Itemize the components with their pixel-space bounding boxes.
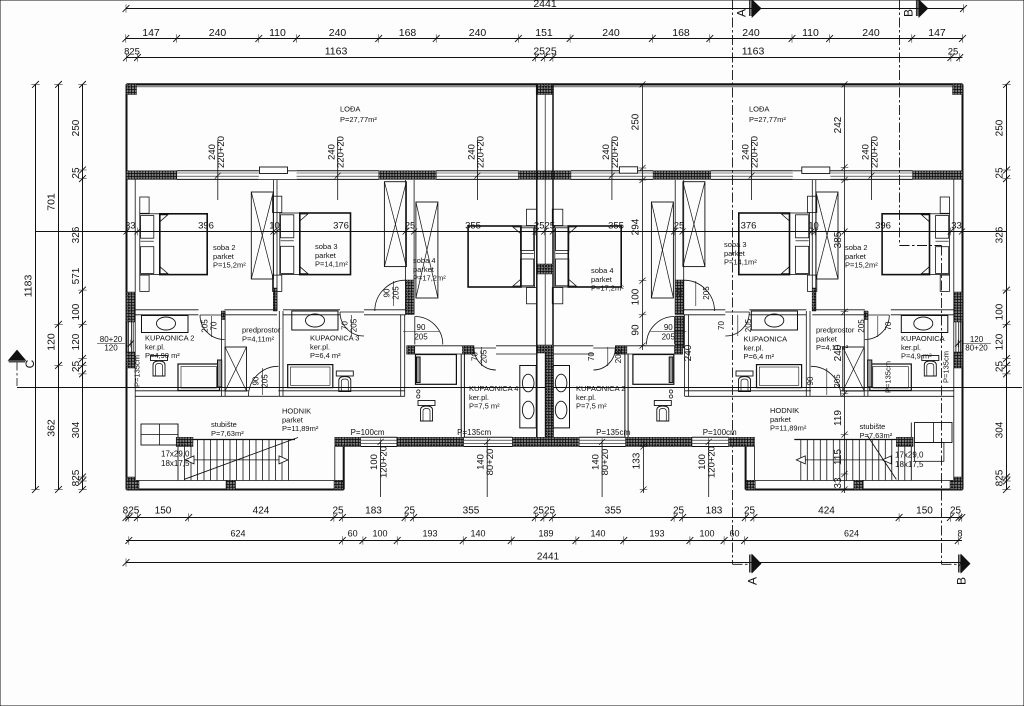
svg-text:ker.pl.: ker.pl. — [901, 343, 921, 352]
svg-text:25: 25 — [950, 506, 962, 517]
pier block right lobby — [675, 316, 684, 348]
svg-text:soba 2: soba 2 — [845, 243, 868, 252]
kupaonica2 vanity right — [553, 366, 569, 428]
svg-text:70: 70 — [884, 321, 893, 330]
svg-text:parket: parket — [282, 415, 304, 424]
svg-text:100: 100 — [71, 303, 82, 320]
right wall piers and window — [954, 292, 963, 322]
bottom wall right wing — [746, 489, 963, 491]
svg-text:133: 133 — [632, 452, 643, 469]
svg-text:B: B — [955, 577, 969, 585]
door soba3 left — [375, 280, 406, 311]
svg-text:220+20: 220+20 — [870, 136, 881, 168]
svg-text:C: C — [23, 359, 37, 368]
bed soba3 left — [300, 213, 351, 275]
svg-text:120: 120 — [104, 344, 118, 353]
left dimension column 250/25/326/571/100/120/25/304/825 — [78, 81, 86, 493]
svg-text:HODNIK: HODNIK — [282, 407, 311, 416]
svg-text:168: 168 — [399, 27, 417, 39]
svg-text:P=100cm: P=100cm — [703, 428, 737, 437]
svg-text:KUPAONICA 2: KUPAONICA 2 — [145, 334, 194, 343]
kupaonica2 wc left — [151, 356, 168, 377]
kup3 top wall right — [684, 310, 807, 315]
svg-text:25: 25 — [994, 361, 1005, 373]
section line C with marker — [9, 350, 26, 360]
svg-text:1163: 1163 — [742, 45, 765, 57]
svg-text:396: 396 — [198, 220, 214, 231]
wall soba2|soba3 right — [806, 180, 816, 396]
svg-text:240: 240 — [329, 27, 347, 39]
svg-text:100: 100 — [699, 529, 714, 539]
svg-text:25: 25 — [673, 506, 685, 517]
door kupaonica3 right — [725, 312, 749, 336]
svg-text:304: 304 — [994, 421, 1005, 438]
svg-text:205: 205 — [261, 374, 270, 388]
hodnik top wall left — [135, 391, 405, 397]
kupaonica3 tub right — [757, 365, 802, 388]
wall soba3|soba4 right — [675, 180, 684, 315]
room dimension line y231 — [35, 228, 1006, 236]
kupaonica vanity right far — [901, 316, 948, 333]
bed soba4 left — [468, 226, 521, 287]
wall kup|predprostor right — [864, 311, 868, 396]
stairs left — [178, 438, 298, 481]
wardrobe soba3 right — [683, 182, 705, 267]
svg-text:825: 825 — [123, 506, 140, 517]
bottom window band — [335, 437, 361, 446]
svg-text:205: 205 — [857, 319, 866, 333]
svg-text:326: 326 — [994, 226, 1005, 243]
svg-text:140: 140 — [590, 529, 605, 539]
kupaonica wc right far — [922, 356, 939, 377]
svg-text:70: 70 — [471, 352, 480, 361]
svg-text:25: 25 — [404, 506, 416, 517]
svg-text:ker.pl.: ker.pl. — [744, 343, 764, 352]
door hodnik left — [248, 366, 278, 396]
svg-text:70: 70 — [210, 321, 219, 330]
svg-text:90: 90 — [630, 324, 641, 336]
kupaonica3 vanity right — [751, 311, 797, 330]
svg-text:385: 385 — [833, 231, 844, 248]
svg-text:2441: 2441 — [537, 552, 560, 563]
loggia wall band — [127, 171, 177, 180]
svg-text:150: 150 — [916, 506, 933, 517]
outer wall right — [962, 84, 964, 489]
svg-text:396: 396 — [875, 220, 891, 231]
svg-text:624: 624 — [230, 529, 245, 539]
svg-text:soba 3: soba 3 — [724, 240, 747, 249]
wall kup2|predprostor left — [221, 311, 225, 396]
kupaonica3 tub left — [288, 365, 333, 388]
door hinge dots left — [417, 390, 420, 393]
svg-text:2441: 2441 — [533, 0, 557, 10]
svg-text:825: 825 — [71, 469, 82, 486]
svg-text:240: 240 — [209, 27, 227, 39]
door kupaonica4 left — [474, 348, 496, 370]
door lobby left — [415, 317, 443, 345]
svg-text:17x29,0: 17x29,0 — [895, 451, 924, 460]
svg-text:120: 120 — [46, 333, 58, 351]
svg-text:90: 90 — [252, 376, 261, 385]
svg-text:120: 120 — [994, 333, 1005, 350]
kupaonica4 vanity left — [520, 366, 536, 428]
door kupaonica3 left — [340, 312, 364, 336]
svg-text:183: 183 — [365, 506, 382, 517]
svg-text:825: 825 — [124, 47, 140, 58]
svg-text:parket: parket — [816, 334, 838, 343]
section A top marker — [750, 0, 751, 16]
svg-text:376: 376 — [333, 220, 349, 231]
svg-text:P=27,77m²: P=27,77m² — [749, 115, 786, 124]
svg-text:304: 304 — [71, 421, 82, 438]
party wall — [537, 84, 553, 437]
wardrobe soba3 left — [384, 182, 406, 267]
svg-text:424: 424 — [818, 506, 835, 517]
left dimension column 701/120/362 — [54, 81, 62, 493]
svg-text:205: 205 — [833, 374, 842, 388]
bed soba4 right — [568, 226, 621, 287]
svg-text:624: 624 — [844, 529, 859, 539]
svg-text:P=14,1m²: P=14,1m² — [315, 260, 348, 269]
svg-text:140: 140 — [470, 529, 485, 539]
svg-text:2525: 2525 — [533, 45, 557, 57]
wardrobe predprostor right — [843, 347, 864, 391]
bed soba2 right — [882, 214, 929, 275]
svg-text:B: B — [901, 9, 915, 17]
svg-text:ker.pl.: ker.pl. — [469, 393, 489, 402]
svg-text:25: 25 — [744, 506, 756, 517]
svg-text:parket: parket — [591, 275, 613, 284]
kup4 north wall left — [407, 346, 537, 354]
svg-text:90: 90 — [383, 288, 392, 297]
loggia window labels — [215, 140, 221, 200]
svg-text:355: 355 — [463, 506, 480, 517]
top dimension row 2 — [123, 53, 963, 61]
svg-text:220+20: 220+20 — [750, 136, 761, 168]
loggia sliding door panels — [260, 167, 288, 174]
bed soba2 left — [160, 214, 207, 275]
wall soba3|soba4 left — [406, 180, 415, 315]
svg-text:205: 205 — [480, 349, 489, 363]
stairs right — [794, 436, 911, 481]
svg-text:362: 362 — [46, 419, 58, 437]
svg-text:100: 100 — [994, 303, 1005, 320]
svg-text:P=135cm: P=135cm — [596, 428, 630, 437]
kup3 top wall left — [283, 310, 406, 315]
svg-text:70: 70 — [341, 321, 350, 330]
svg-text:90: 90 — [806, 376, 815, 385]
svg-text:120+20: 120+20 — [707, 446, 718, 478]
svg-text:P=17,2m²: P=17,2m² — [591, 284, 624, 293]
svg-text:33: 33 — [833, 477, 844, 489]
svg-text:90: 90 — [417, 323, 426, 332]
svg-text:18x17,5: 18x17,5 — [895, 460, 924, 469]
svg-text:90: 90 — [675, 288, 684, 297]
svg-text:HODNIK: HODNIK — [770, 406, 799, 415]
svg-text:parket: parket — [724, 249, 746, 258]
svg-text:376: 376 — [741, 220, 757, 231]
door hodnik right — [811, 366, 841, 396]
left wing east wall — [343, 447, 345, 490]
svg-text:P=135cm: P=135cm — [457, 428, 491, 437]
svg-text:25: 25 — [994, 167, 1005, 179]
svg-text:80+20: 80+20 — [600, 449, 611, 476]
svg-text:168: 168 — [672, 27, 690, 39]
svg-text:205: 205 — [201, 319, 210, 333]
svg-text:P=11,89m²: P=11,89m² — [770, 424, 807, 433]
section line A — [733, 0, 750, 564]
right dimension column 250/25/326/100/120/25/304/825 — [1002, 81, 1010, 493]
svg-text:P=100cm: P=100cm — [351, 428, 385, 437]
svg-text:P=17,2m²: P=17,2m² — [413, 274, 446, 283]
svg-text:P=6,4 m²: P=6,4 m² — [310, 351, 341, 360]
svg-text:205: 205 — [662, 333, 676, 342]
stair landing left — [141, 424, 178, 445]
kupaonica3 wc right — [736, 371, 753, 392]
svg-text:P=7,63m²: P=7,63m² — [860, 431, 893, 440]
wardrobe soba2 left — [251, 192, 273, 279]
kupaonica3 wc left — [336, 371, 353, 392]
svg-text:825: 825 — [994, 469, 1005, 486]
svg-text:18x17,5: 18x17,5 — [161, 459, 190, 468]
svg-text:parket: parket — [845, 252, 867, 261]
svg-text:P=7,63m²: P=7,63m² — [211, 429, 244, 438]
door soba3 right — [684, 280, 715, 311]
svg-text:110: 110 — [802, 27, 819, 39]
outer wall top edge — [127, 83, 963, 85]
svg-text:P=7,5 m²: P=7,5 m² — [469, 402, 500, 411]
kupaonica2 vanity left — [142, 316, 189, 333]
svg-text:100: 100 — [630, 288, 641, 305]
svg-text:P=11,89m²: P=11,89m² — [282, 424, 319, 433]
bottom dimension row 1 — [123, 513, 966, 521]
kupaonica3 vanity left — [292, 311, 338, 330]
svg-text:115: 115 — [833, 449, 844, 465]
svg-text:P=14,1m²: P=14,1m² — [724, 258, 757, 267]
svg-text:25: 25 — [71, 361, 82, 373]
door hinge dots right — [669, 390, 672, 393]
svg-text:ker.pl.: ker.pl. — [310, 342, 330, 351]
svg-text:193: 193 — [422, 529, 437, 539]
svg-text:parket: parket — [413, 265, 435, 274]
svg-text:A: A — [735, 9, 749, 17]
corner hatch blocks top — [127, 84, 137, 94]
svg-text:8: 8 — [957, 529, 962, 539]
section line B (jogged) — [900, 0, 959, 564]
kup2 east wall right — [627, 354, 629, 437]
svg-text:1163: 1163 — [325, 45, 348, 57]
right wing west wall — [745, 447, 747, 490]
svg-text:predprostor: predprostor — [816, 326, 855, 335]
door kupaonica2 left — [200, 315, 225, 340]
svg-text:80+20: 80+20 — [965, 344, 988, 353]
svg-text:205: 205 — [350, 318, 359, 332]
svg-text:33: 33 — [951, 220, 962, 231]
bottom dimension row 2441 — [123, 558, 966, 566]
svg-text:189: 189 — [538, 529, 553, 539]
svg-text:205: 205 — [392, 286, 401, 300]
kupaonica4 wc left — [418, 401, 435, 422]
kup2 north wall right — [553, 346, 683, 354]
svg-text:P=4,9 m²: P=4,9 m² — [901, 352, 932, 361]
svg-text:193: 193 — [649, 529, 664, 539]
svg-text:P=4,11m²: P=4,11m² — [242, 334, 275, 343]
section B top marker — [916, 0, 917, 16]
svg-text:119: 119 — [833, 410, 844, 426]
svg-text:KUPAONICA: KUPAONICA — [901, 334, 945, 343]
svg-text:P=15,2m²: P=15,2m² — [845, 261, 878, 270]
kup3 east wall left — [401, 315, 405, 397]
svg-text:60: 60 — [348, 529, 358, 539]
bottom dimension row 2 — [125, 536, 962, 544]
svg-text:205: 205 — [414, 333, 428, 342]
svg-text:147: 147 — [142, 27, 160, 39]
svg-text:parket: parket — [770, 415, 792, 424]
wall soba2|soba3 left — [274, 180, 284, 396]
svg-text:soba 2: soba 2 — [213, 243, 236, 252]
svg-text:P=4,11m²: P=4,11m² — [816, 343, 849, 352]
svg-text:220+20: 220+20 — [216, 136, 227, 168]
svg-text:10: 10 — [269, 220, 280, 231]
svg-text:KUPAONICA 4: KUPAONICA 4 — [469, 384, 518, 393]
svg-text:220+20: 220+20 — [336, 136, 347, 168]
svg-text:205: 205 — [702, 286, 711, 300]
svg-text:parket: parket — [315, 251, 337, 260]
svg-text:P=6,4 m²: P=6,4 m² — [744, 352, 775, 361]
svg-text:250: 250 — [630, 113, 641, 130]
svg-text:220+20: 220+20 — [610, 136, 621, 168]
svg-text:P=15,2m²: P=15,2m² — [213, 261, 246, 270]
svg-text:70: 70 — [717, 321, 726, 330]
svg-text:80+20: 80+20 — [485, 449, 496, 476]
svg-text:P=7,5 m²: P=7,5 m² — [576, 402, 607, 411]
svg-text:KUPAONICA: KUPAONICA — [744, 335, 788, 344]
loggia vent panel right — [619, 167, 637, 173]
svg-text:240: 240 — [862, 27, 880, 39]
kupaonica2 tub left — [178, 364, 220, 391]
door kupaonica2 right — [593, 348, 615, 370]
svg-text:P=27,77m²: P=27,77m² — [340, 115, 377, 124]
svg-text:soba 4: soba 4 — [591, 266, 614, 275]
svg-text:90: 90 — [664, 323, 673, 332]
wardrobe soba4 left — [416, 202, 438, 298]
svg-text:P=135cm: P=135cm — [133, 355, 142, 387]
svg-text:151: 151 — [535, 27, 553, 39]
svg-text:240: 240 — [683, 344, 694, 361]
left wall piers and window — [127, 292, 136, 322]
svg-text:25: 25 — [71, 167, 82, 179]
svg-text:150: 150 — [155, 506, 172, 517]
svg-text:571: 571 — [71, 267, 82, 284]
svg-text:70: 70 — [587, 352, 596, 361]
svg-text:242: 242 — [833, 116, 844, 133]
wardrobe soba2 right — [816, 192, 838, 279]
wall soba2|bath horizontal left — [135, 310, 277, 315]
svg-text:P=4,90 m²: P=4,90 m² — [145, 351, 180, 360]
kupaonica2 radiator left — [218, 360, 222, 387]
svg-text:240: 240 — [469, 27, 487, 39]
svg-text:ker.pl.: ker.pl. — [145, 342, 165, 351]
kup4 west wall left — [460, 354, 462, 437]
svg-text:110: 110 — [269, 27, 286, 39]
left dimension column 1183 — [31, 81, 39, 493]
door lobby right — [647, 317, 675, 345]
top dimension row 1 — [122, 34, 966, 42]
kupaonica2 wc right — [654, 401, 671, 422]
svg-text:147: 147 — [928, 27, 946, 39]
svg-text:701: 701 — [46, 193, 58, 211]
svg-text:predprostor: predprostor — [242, 326, 281, 335]
svg-text:424: 424 — [253, 506, 270, 517]
dim line x=642 right — [639, 81, 647, 350]
svg-text:KUPAONICA 3: KUPAONICA 3 — [310, 334, 359, 343]
svg-text:355: 355 — [605, 506, 622, 517]
wardrobe soba4 right — [651, 202, 673, 298]
dim line x=844.6 right — [841, 81, 849, 493]
top dimension row 2441 — [123, 4, 967, 12]
svg-text:LOĐA: LOĐA — [340, 105, 360, 114]
kupaonica tub right far — [870, 364, 912, 391]
bottom wall left wing — [127, 489, 344, 491]
svg-text:soba 4: soba 4 — [413, 256, 436, 265]
stair landing right — [915, 423, 953, 443]
svg-text:250: 250 — [994, 119, 1005, 136]
svg-text:240: 240 — [602, 27, 620, 39]
svg-text:250: 250 — [71, 119, 82, 136]
kupaonica4 shower left — [416, 355, 457, 385]
svg-text:parket: parket — [213, 252, 235, 261]
wardrobe predprostor left — [225, 347, 246, 391]
svg-text:LOĐA: LOĐA — [749, 105, 769, 114]
svg-text:2525: 2525 — [533, 506, 556, 517]
svg-text:120: 120 — [71, 333, 82, 350]
svg-text:326: 326 — [71, 226, 82, 243]
svg-text:ker.pl.: ker.pl. — [576, 393, 596, 402]
svg-text:100: 100 — [372, 529, 387, 539]
outer wall left — [126, 84, 128, 489]
wall soba2|bath horizontal right — [812, 310, 954, 315]
svg-text:294: 294 — [630, 218, 641, 235]
svg-text:183: 183 — [706, 506, 723, 517]
svg-text:P=135cm: P=135cm — [884, 361, 893, 393]
dim line x=643 bottom right — [640, 441, 648, 493]
svg-text:60: 60 — [729, 529, 739, 539]
hodnik top wall right — [685, 391, 955, 397]
svg-text:25: 25 — [948, 46, 959, 57]
bottom window labels — [378, 438, 384, 497]
svg-text:stubište: stubište — [211, 420, 237, 429]
bed soba3 right — [739, 213, 790, 275]
kupaonica2 shower right — [633, 355, 674, 385]
svg-text:205: 205 — [744, 318, 753, 332]
svg-text:stubište: stubište — [860, 422, 886, 431]
svg-text:soba 3: soba 3 — [315, 242, 338, 251]
svg-text:240: 240 — [742, 27, 760, 39]
kup3 west wall right — [685, 315, 689, 397]
svg-text:220+20: 220+20 — [475, 136, 486, 168]
svg-text:120+20: 120+20 — [379, 446, 390, 478]
svg-text:A: A — [746, 577, 760, 585]
svg-text:205: 205 — [614, 349, 623, 363]
svg-text:KUPAONICA 2: KUPAONICA 2 — [576, 384, 625, 393]
door kupaonica right far — [865, 315, 890, 340]
svg-text:25: 25 — [332, 506, 344, 517]
svg-text:P=135cm: P=135cm — [942, 351, 951, 383]
svg-text:17x29,0: 17x29,0 — [161, 450, 190, 459]
svg-text:1183: 1183 — [23, 275, 35, 298]
